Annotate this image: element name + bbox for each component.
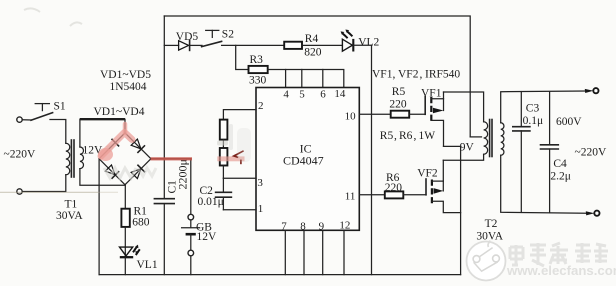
wire pin3 line bbox=[223, 177, 256, 179]
svg-text:,: , bbox=[393, 69, 396, 81]
svg-text:220: 220 bbox=[389, 99, 407, 111]
wire T2 secondary bottom to output bbox=[501, 155, 587, 213]
terminal output top bbox=[585, 89, 594, 93]
capacitor C2 bbox=[216, 178, 232, 210]
svg-text:R5: R5 bbox=[380, 130, 394, 142]
svg-text:T2: T2 bbox=[485, 218, 498, 230]
svg-text:R3: R3 bbox=[250, 54, 264, 66]
svg-text:6: 6 bbox=[320, 89, 326, 101]
svg-text:VF2: VF2 bbox=[417, 167, 438, 179]
svg-text:12V: 12V bbox=[197, 231, 218, 243]
scan smudge group bbox=[0, 8, 251, 192]
diode VD5 bbox=[179, 40, 190, 50]
wire pin9 drop bbox=[322, 230, 324, 274]
wire dc plus riser to VD5 line and top rail bbox=[163, 16, 165, 159]
svg-text:R6: R6 bbox=[399, 130, 413, 142]
svg-text:7: 7 bbox=[281, 220, 287, 232]
wire R1 to VL1 bbox=[124, 227, 126, 257]
bridge diode top-left bbox=[105, 139, 118, 152]
logo circle bbox=[467, 242, 506, 281]
svg-text:4: 4 bbox=[283, 89, 289, 101]
transformer T1 core bbox=[71, 140, 74, 177]
transformer T1 secondary winding bbox=[80, 147, 84, 169]
wire T1 secondary top to bridge top node bbox=[79, 119, 81, 147]
wire bridge bottom node down to R1 bbox=[124, 185, 126, 209]
red highlight bridge top-left edge bbox=[101, 133, 132, 157]
svg-text:2200μ: 2200μ bbox=[176, 159, 190, 189]
wire VF1 drain to T2 top bbox=[444, 92, 484, 122]
svg-text:S2: S2 bbox=[222, 29, 234, 41]
svg-text:12: 12 bbox=[339, 220, 350, 232]
svg-text:5: 5 bbox=[299, 89, 305, 101]
switch S2 bbox=[202, 30, 222, 46]
terminal output bottom bbox=[586, 211, 595, 215]
top rail bbox=[164, 16, 470, 137]
svg-text:1: 1 bbox=[258, 203, 264, 215]
svg-text:CD4047: CD4047 bbox=[283, 154, 324, 168]
wire R6 to VF2 gate bbox=[403, 194, 426, 196]
wire bridge minus left node down to bottom rail bbox=[98, 159, 100, 275]
svg-text:T1: T1 bbox=[65, 199, 78, 211]
svg-text:R5: R5 bbox=[392, 86, 406, 98]
switch S1 bbox=[31, 104, 53, 121]
svg-text:VF1: VF1 bbox=[421, 88, 442, 100]
svg-text:30VA: 30VA bbox=[56, 210, 83, 222]
svg-text:,: , bbox=[414, 130, 417, 142]
svg-text:VL2: VL2 bbox=[358, 36, 379, 48]
wire R5 to VF1 gate bbox=[409, 113, 425, 115]
svg-text:2.2μ: 2.2μ bbox=[550, 171, 571, 183]
wire T2 secondary top to output bbox=[501, 91, 587, 123]
svg-text:C3: C3 bbox=[526, 102, 540, 114]
svg-text:330: 330 bbox=[249, 74, 267, 86]
bottom rail bbox=[99, 274, 461, 276]
capacitor C3 bbox=[513, 92, 530, 213]
wire pin10 to R5 bbox=[359, 113, 390, 115]
wire GB top bbox=[190, 159, 192, 215]
svg-text:C2: C2 bbox=[200, 185, 214, 197]
wire R3 bus to pin14 bbox=[268, 70, 344, 88]
svg-text:,: , bbox=[394, 130, 397, 142]
svg-text:~220V: ~220V bbox=[4, 149, 36, 161]
red arrow at R2 bbox=[234, 151, 244, 164]
smudge near R2 top bbox=[217, 141, 228, 146]
wire GB bottom to rail bbox=[190, 256, 192, 275]
wire R2 to pin3 line bbox=[222, 166, 224, 179]
wire pin2 left bbox=[223, 110, 256, 120]
wire T1 secondary bottom to bridge bottom node bbox=[80, 169, 125, 186]
terminal input bottom bbox=[17, 189, 22, 194]
GB terminal circle top bbox=[188, 214, 194, 220]
svg-text:1N5404: 1N5404 bbox=[110, 81, 147, 93]
wire pin1 line bbox=[223, 209, 256, 211]
svg-text:VF1: VF1 bbox=[372, 69, 393, 81]
battery GB bbox=[182, 220, 200, 250]
svg-text:VD1~VD4: VD1~VD4 bbox=[94, 106, 145, 118]
smudge ghost under bridge bbox=[104, 168, 136, 178]
wire VL2 to drop bbox=[353, 44, 371, 46]
red highlight left node blob bbox=[98, 148, 113, 161]
wire S2 to R4 bbox=[222, 44, 285, 46]
resistor R1 bbox=[121, 209, 129, 227]
svg-text:0.1μ: 0.1μ bbox=[523, 115, 544, 127]
LED VL2 bbox=[341, 30, 354, 52]
svg-text:www.elecfans.com: www.elecfans.com bbox=[506, 263, 616, 278]
svg-text:9V: 9V bbox=[460, 141, 475, 153]
wire bridge plus node to GB junction bbox=[151, 158, 191, 160]
resistor R5 bbox=[391, 111, 410, 118]
smudge top left corner bbox=[24, 8, 82, 26]
smudge right of R2 bbox=[229, 124, 233, 150]
svg-text:3: 3 bbox=[257, 177, 263, 189]
resistor R4 bbox=[284, 42, 302, 49]
transformer T2 primary winding bbox=[484, 122, 488, 154]
svg-text:IRF540: IRF540 bbox=[425, 69, 460, 81]
wire pin6 drop bbox=[322, 70, 324, 88]
wire VD5 to S2 bbox=[190, 44, 202, 46]
transformer T2 secondary winding bbox=[501, 123, 504, 156]
wire VL2 drop to bottom rail bbox=[371, 45, 373, 274]
wire T1 primary bottom to terminal bbox=[22, 175, 65, 192]
svg-text:820: 820 bbox=[304, 46, 322, 58]
svg-text:VD1~VD5: VD1~VD5 bbox=[100, 69, 151, 81]
watermark chinese glyph blobs bbox=[510, 243, 608, 266]
watermark group bbox=[467, 241, 616, 281]
svg-text:11: 11 bbox=[345, 190, 356, 202]
op IC CD4047 box bbox=[256, 88, 359, 231]
wire VF1 source to ground drop bbox=[444, 146, 461, 274]
svg-text:R4: R4 bbox=[305, 33, 319, 45]
svg-text:9: 9 bbox=[319, 220, 325, 232]
bridge diode bottom-right bbox=[131, 165, 144, 178]
svg-text:14: 14 bbox=[334, 88, 346, 100]
wire pin4 drop bbox=[285, 70, 287, 88]
resistor R6 bbox=[385, 191, 404, 198]
svg-text:220: 220 bbox=[385, 182, 403, 194]
bridge rectifier VD1-VD4 diamond bbox=[99, 133, 151, 185]
svg-text:VF2: VF2 bbox=[398, 69, 419, 81]
wire center tap stub bbox=[470, 136, 481, 138]
svg-text:S1: S1 bbox=[54, 101, 66, 113]
capacitor C1 bbox=[154, 159, 174, 275]
wire pin11 to R6 bbox=[359, 194, 385, 196]
svg-text:2: 2 bbox=[258, 100, 264, 112]
svg-text:600V: 600V bbox=[556, 116, 582, 128]
wire S1 to T1 primary bbox=[50, 120, 66, 144]
wire R2 middle bbox=[222, 140, 224, 148]
wire pin12 drop bbox=[343, 230, 345, 274]
wire VL1 to bottom rail bbox=[124, 258, 126, 275]
transformer T1 primary winding bbox=[66, 143, 70, 175]
smudge near C2 bbox=[237, 128, 251, 162]
wire R4 to VL2 bbox=[302, 44, 342, 46]
svg-text:680: 680 bbox=[132, 217, 150, 229]
GB terminal circle bottom bbox=[188, 250, 194, 256]
svg-text:8: 8 bbox=[300, 220, 306, 232]
wire VF2 drain to T2 bottom bbox=[443, 154, 483, 160]
resistor R2a bbox=[220, 120, 228, 140]
wire input top to switch bbox=[22, 119, 31, 121]
wire junction to R3 bbox=[236, 45, 249, 69]
bridge diode bottom-left bbox=[105, 165, 118, 178]
svg-text:0.01μ: 0.01μ bbox=[198, 196, 224, 208]
wire pin8 drop bbox=[303, 230, 305, 274]
red highlight top node spike bbox=[123, 124, 128, 133]
wire pin5 drop bbox=[301, 70, 303, 88]
svg-text:~220V: ~220V bbox=[575, 146, 607, 158]
red line bridge output bbox=[151, 157, 193, 160]
transistor VF1 bbox=[425, 92, 443, 146]
capacitor C4 bbox=[541, 92, 559, 213]
wire VD5 anode bbox=[164, 44, 178, 46]
transistor VF2 bbox=[426, 160, 461, 212]
resistor R3 bbox=[249, 66, 268, 73]
svg-text:VL1: VL1 bbox=[137, 259, 158, 271]
wire pin7 drop bbox=[284, 230, 286, 274]
red annotation group bbox=[98, 124, 245, 164]
svg-text:10: 10 bbox=[345, 111, 357, 123]
svg-text:1W: 1W bbox=[419, 130, 436, 142]
bridge diode top-right bbox=[131, 139, 144, 152]
svg-text:,: , bbox=[420, 69, 423, 81]
red band at R2 bbox=[217, 156, 244, 161]
transformer T2 core bbox=[490, 120, 492, 157]
resistor R2b bbox=[220, 148, 228, 166]
svg-text:VD5: VD5 bbox=[176, 31, 199, 43]
svg-text:C4: C4 bbox=[553, 158, 567, 170]
LED VL1 bbox=[120, 245, 140, 258]
terminal input top bbox=[17, 117, 22, 122]
smudge ghost right of bridge bbox=[138, 168, 156, 176]
smudge fold line left bbox=[0, 191, 98, 193]
